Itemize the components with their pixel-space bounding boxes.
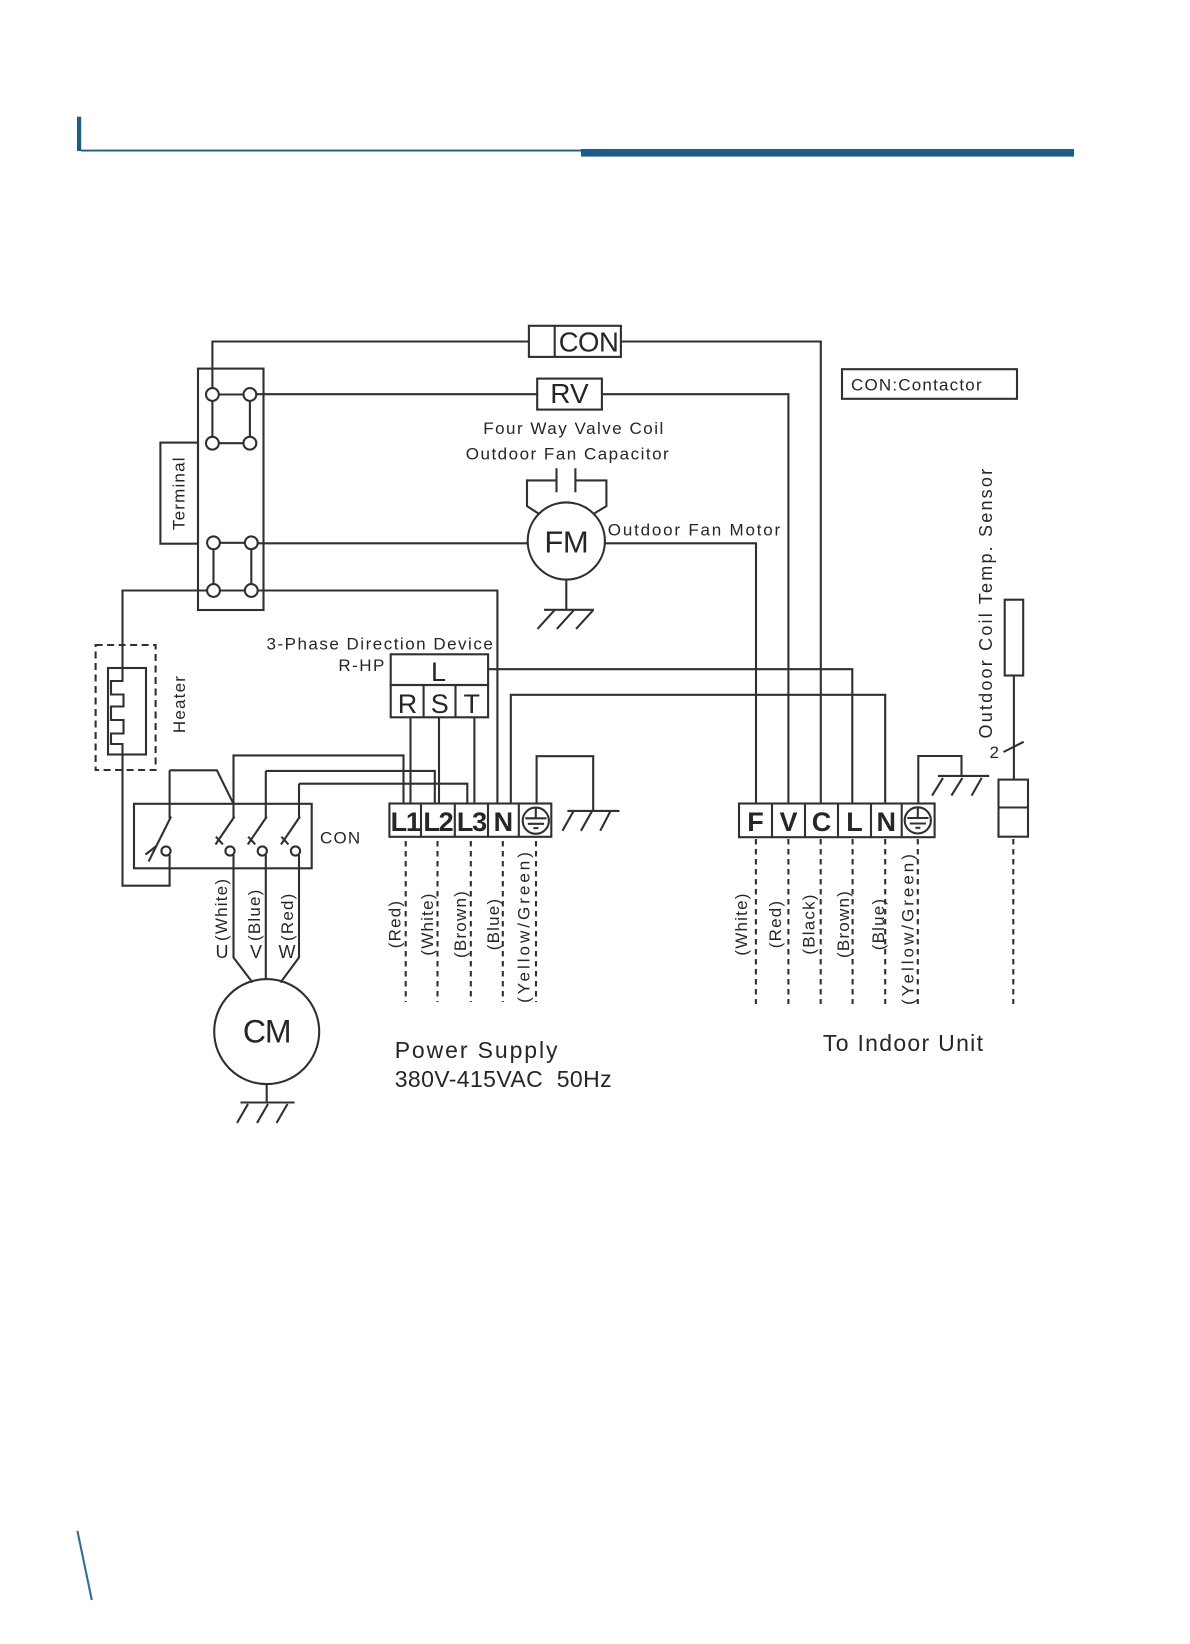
svg-text:Outdoor Coil Temp. Sensor: Outdoor Coil Temp. Sensor [976,467,996,739]
svg-text:L1: L1 [391,807,421,837]
svg-text:(Brown): (Brown) [451,890,470,958]
wire S to L2 [438,717,440,803]
ground right of power block [567,810,619,812]
direction device L box [391,654,488,685]
svg-text:Power Supply: Power Supply [395,1037,560,1063]
reversing valve coil RV box [537,379,602,410]
terminal block [198,369,264,610]
power earth terminal [523,808,549,834]
wire N to indoor N [511,695,885,804]
svg-text:V: V [779,807,797,837]
wire pin6-pin8 [250,549,252,584]
svg-text:U: U [216,942,229,962]
svg-text:CON: CON [559,327,619,358]
svg-text:(Yellow/Green): (Yellow/Green) [899,851,918,1005]
heater dashed enclosure [96,645,156,770]
wire CM to ground [266,1084,268,1102]
svg-text:F: F [747,807,764,837]
svg-text:(White): (White) [418,892,437,955]
svg-text:Terminal: Terminal [170,456,189,530]
wire pole4 to L3 [299,784,467,804]
svg-text:Heater: Heater [170,675,189,733]
terminal pin 4 [244,437,257,450]
svg-text:N: N [877,807,897,837]
wire pole2 to compressor U [234,855,253,983]
svg-text:L2: L2 [423,807,452,837]
svg-text:L: L [846,807,863,837]
heater element zigzag [111,668,124,755]
svg-text:CON: CON [320,829,361,848]
header thick bar [581,149,1074,157]
wire pin5-pin7 [212,549,214,584]
indoor dashed leads [755,839,757,1004]
wire terminal pin6 to FM [258,542,528,544]
power terminal block L1 L2 L3 N [389,804,551,837]
outdoor fan motor FM [528,502,605,579]
sensor dashed lead [1012,839,1014,1004]
svg-text:Outdoor Fan Capacitor: Outdoor Fan Capacitor [466,445,670,464]
terminal pin 2 [244,388,257,401]
svg-text:(Blue): (Blue) [869,898,888,951]
svg-text:R: R [398,689,418,719]
wire FM to F terminal [605,543,756,803]
contactor CON box [134,804,312,869]
svg-text:2: 2 [990,743,999,762]
terminal pin 3 [206,437,219,450]
terminal pin 6 [245,536,258,549]
wire pin5-pin6 [220,542,245,544]
svg-text:(Black): (Black) [800,893,819,954]
wire pin3-pin4 [219,442,244,444]
svg-text:(Red): (Red) [766,900,785,949]
sensor wire slash mark [1004,742,1024,752]
svg-text:(Red): (Red) [386,900,405,949]
wire CON coil to C terminal [621,342,821,804]
wire pin7-pin8 [220,589,245,591]
svg-text:CM: CM [243,1014,291,1050]
contactor pole 3 [265,771,267,818]
svg-text:RV: RV [550,378,589,409]
svg-text:(White): (White) [732,892,751,955]
wire pole3 to compressor V [265,855,267,979]
wire L output to indoor L [488,669,852,803]
svg-text:(Blue): (Blue) [245,888,264,941]
svg-text:W: W [279,942,296,962]
terminal label box [160,443,198,544]
wire pin2-pin4 [249,401,251,437]
header accent vertical bar [77,117,81,151]
svg-text:CON:Contactor: CON:Contactor [851,376,983,395]
power supply dashed leads [405,841,407,1002]
svg-text:C: C [812,807,832,837]
svg-text:V: V [250,942,262,962]
header thin rule [81,150,581,152]
compressor motor CM [214,979,319,1084]
svg-text:N: N [494,807,514,837]
contactor pole 1 [169,770,171,818]
capacitor C1 plates [555,468,557,492]
heater element box [108,668,146,755]
svg-text:380V-415VAC 50Hz: 380V-415VAC 50Hz [395,1066,612,1092]
capacitor right lead [575,480,606,514]
terminal pin 8 [245,584,258,597]
wire pole1 top link to pole2 [170,770,234,804]
terminal pin 7 [207,584,220,597]
wire pin1-pin3 [211,401,213,437]
wire T to L3 [473,717,475,803]
wire pin1-pin2 [219,393,244,395]
svg-text:Four Way Valve Coil: Four Way Valve Coil [483,419,665,438]
terminal pin 1 [206,388,219,401]
svg-text:To Indoor Unit: To Indoor Unit [823,1030,984,1056]
ground right of indoor block [938,775,989,777]
svg-text:S: S [431,689,449,719]
wire R to L1 [409,717,411,803]
svg-text:L: L [431,657,446,687]
svg-text:FM: FM [544,525,588,560]
wire terminal pin8 to N terminal [258,591,498,804]
footer blue tick [77,1531,91,1600]
contactor pole 4 [298,784,300,818]
legend box CON:Contactor [842,369,1017,399]
wire indoor earth to ground [918,756,961,804]
contactor coil CON box [529,326,621,357]
wire terminal pin2 to RV [256,393,537,395]
wire terminal pin7 to heater [123,591,208,669]
contactor pole 2 [232,804,234,818]
sensor connector [999,780,1029,837]
wire pole4 to compressor W [281,855,300,983]
svg-text:(Red): (Red) [278,892,297,941]
wire pole2 to L1 [234,755,404,803]
wire terminal pin1 to CON coil [212,342,529,389]
svg-text:3-Phase Direction Device: 3-Phase Direction Device [266,635,494,654]
svg-text:L3: L3 [457,807,487,837]
svg-text:(Yellow/Green): (Yellow/Green) [515,849,534,1003]
capacitor left lead [527,480,557,514]
direction device RST box [391,685,488,717]
svg-text:R-HP: R-HP [338,656,386,675]
terminal pin 5 [207,536,220,549]
svg-text:(Blue): (Blue) [484,898,503,951]
svg-text:Outdoor Fan Motor: Outdoor Fan Motor [608,520,782,539]
svg-text:(Brown): (Brown) [834,890,853,958]
wire power earth to ground [537,756,594,811]
wire heater to contactor pole 1 [123,755,170,886]
ground below FM [544,609,594,611]
indoor terminal block F V C L N [739,804,935,838]
wire FM to ground [565,580,567,610]
svg-text:T: T [463,689,480,719]
indoor earth terminal [905,807,931,833]
wire pole3 to L2 [266,771,435,804]
wire sensor to connector [1013,676,1015,780]
svg-text:(White): (White) [212,878,231,941]
ground below CM [241,1101,295,1103]
wire RV to V terminal [602,394,789,803]
sensor body [1005,600,1024,676]
